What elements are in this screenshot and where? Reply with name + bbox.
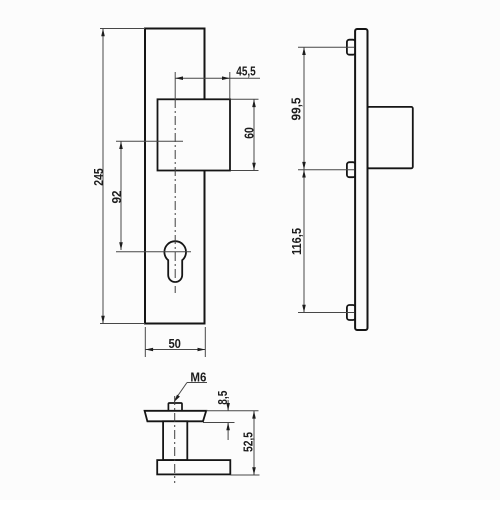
dimension 8,5 extension line bottom	[203, 422, 235, 424]
svg-text:52,5: 52,5	[241, 432, 256, 452]
svg-text:245: 245	[91, 168, 106, 186]
dimension 8,5 arrow up	[226, 423, 230, 431]
dimension 99,5 arrow bottom	[302, 162, 306, 170]
dimension 45,5 arrow left	[175, 76, 183, 80]
svg-text:45,5: 45,5	[236, 64, 256, 79]
side view plate	[355, 29, 367, 330]
bolt centerline	[174, 396, 176, 483]
dimension 52,5 line	[253, 411, 255, 475]
dimension 60 arrow top	[252, 99, 256, 107]
dimension 8,5 upper line	[227, 400, 229, 411]
dimension 50 arrow right	[198, 348, 206, 352]
dimension 45,5 arrow right	[222, 76, 230, 80]
label M6 leader underline	[187, 382, 207, 384]
bolt bottom plate	[157, 460, 230, 474]
extension line middle screw	[298, 169, 354, 171]
horizontal centerline through keyhole	[116, 251, 191, 253]
label M6 leader diagonal	[176, 383, 188, 400]
dimension 60 extension line bottom	[231, 170, 259, 172]
dimension 245 extension line bottom	[100, 323, 145, 325]
profile cylinder keyhole	[164, 241, 186, 282]
dimension 8,5 arrow down	[226, 403, 230, 411]
dimension 50 arrow left	[145, 348, 153, 352]
dimension 116,5 line	[303, 170, 305, 313]
dimension 45,5 extension line right	[229, 72, 231, 99]
dimension 245 line	[102, 29, 104, 324]
side view fixing screw top	[347, 40, 356, 55]
dimension 52,5 arrow bottom	[252, 467, 256, 475]
dimension 45,5 extension line left	[174, 72, 176, 99]
svg-text:8,5: 8,5	[215, 391, 230, 405]
dimension 245 arrow top	[101, 29, 105, 37]
side view handle block	[368, 107, 413, 168]
svg-text:50: 50	[168, 336, 181, 351]
svg-text:99,5: 99,5	[289, 98, 304, 121]
label M6 leader arrow	[173, 395, 180, 403]
dimension 50 extension line left	[144, 327, 146, 357]
dimension 92 arrow bottom	[119, 242, 123, 250]
dimension 92 arrow top	[119, 141, 123, 149]
front view plate outline	[145, 29, 205, 324]
dimension 8,5 lower line	[227, 423, 229, 441]
extension line top screw	[298, 46, 354, 48]
dimension 245 arrow bottom	[101, 316, 105, 324]
vertical centerline of front view	[174, 99, 176, 293]
dimension 92 line	[120, 141, 122, 250]
dimension 52,5 extension line bottom	[231, 474, 260, 476]
svg-text:92: 92	[109, 191, 124, 204]
dimension 116,5 arrow top	[302, 170, 306, 178]
dimension 50 line	[145, 349, 205, 351]
dimension 45,5 line	[175, 77, 260, 79]
dimension 60 line	[253, 99, 255, 170]
svg-text:60: 60	[242, 127, 257, 139]
dimension 116,5 arrow bottom	[302, 305, 306, 313]
handle boss square (front view)	[158, 99, 231, 170]
dimension 52,5 arrow top	[252, 411, 256, 419]
dimension 99,5 line	[303, 47, 305, 170]
dimension 99,5 arrow top	[302, 47, 306, 55]
dimension 8,5 extension line top	[206, 410, 258, 412]
bolt flange	[145, 411, 207, 422]
horizontal centerline through handle square	[116, 140, 183, 142]
extension line bottom screw	[298, 312, 354, 314]
side view fixing screw bottom	[347, 305, 356, 320]
dimension 60 extension line top	[231, 98, 259, 100]
side view fixing screw middle	[347, 162, 356, 177]
bolt stem	[163, 421, 187, 460]
dimension 245 extension line top	[100, 28, 145, 30]
bolt nut head	[168, 403, 182, 411]
dimension 60 arrow bottom	[252, 163, 256, 171]
dimension 50 extension line right	[204, 327, 206, 357]
svg-text:116,5: 116,5	[289, 228, 304, 255]
